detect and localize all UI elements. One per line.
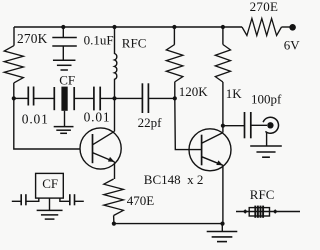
svg-text:0.1uF: 0.1uF bbox=[84, 33, 114, 48]
svg-text:1K: 1K bbox=[226, 86, 243, 101]
svg-text:6V: 6V bbox=[284, 38, 301, 53]
svg-text:RFC: RFC bbox=[122, 36, 147, 51]
svg-text:CF: CF bbox=[42, 176, 58, 191]
svg-text:RFC: RFC bbox=[250, 187, 275, 202]
svg-text:22pf: 22pf bbox=[138, 115, 163, 130]
svg-text:BC148 x 2: BC148 x 2 bbox=[144, 172, 204, 187]
svg-text:100pf: 100pf bbox=[251, 91, 282, 106]
svg-text:270K: 270K bbox=[17, 31, 48, 46]
svg-text:0.01: 0.01 bbox=[22, 111, 49, 126]
svg-text:120K: 120K bbox=[179, 84, 209, 99]
svg-text:270E: 270E bbox=[250, 0, 279, 14]
svg-text:0.01: 0.01 bbox=[84, 110, 111, 125]
svg-text:470E: 470E bbox=[127, 193, 155, 208]
svg-text:CF: CF bbox=[59, 72, 75, 87]
